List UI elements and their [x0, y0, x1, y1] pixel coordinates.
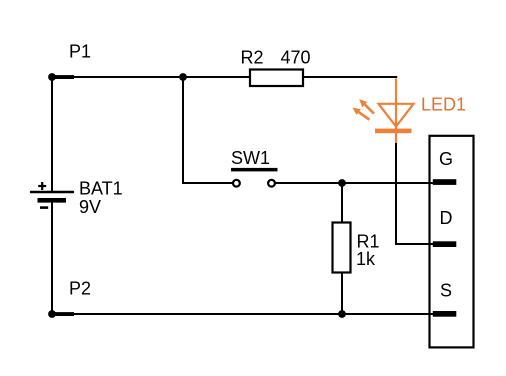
LED anode lead — [395, 78, 397, 128]
resistor R1 — [333, 223, 351, 273]
switch right contact — [268, 180, 275, 187]
svg-text:1k: 1k — [356, 249, 376, 269]
svg-text:P1: P1 — [69, 42, 91, 62]
node junction P2 — [48, 310, 56, 318]
wire bottom rail P2 to S pin — [52, 313, 436, 315]
pin S bar — [433, 311, 457, 317]
wire R2 right to corner — [303, 76, 397, 78]
svg-text:470: 470 — [281, 48, 311, 68]
wire R1 top lead — [341, 183, 343, 223]
pin P2 — [51, 312, 74, 316]
wire P1 top rail left — [52, 76, 250, 78]
switch SW1 — [231, 168, 278, 187]
connector box — [430, 136, 474, 348]
node junction switch rail / R1 — [338, 179, 346, 187]
wire LED cathode down — [395, 142, 397, 245]
svg-text:BAT1: BAT1 — [79, 179, 123, 199]
svg-text:9V: 9V — [79, 197, 101, 217]
battery BAT1 — [30, 182, 74, 208]
battery bottom plate (-) — [38, 198, 67, 203]
wire battery bottom lead — [51, 200, 53, 315]
LED cathode bar — [375, 129, 412, 134]
wire switch left lead — [182, 182, 233, 184]
LED cathode lead — [395, 128, 397, 143]
svg-text:P2: P2 — [69, 279, 91, 299]
wire battery top lead — [51, 76, 53, 192]
node junction top rail / switch branch — [179, 73, 187, 81]
switch left contact — [233, 180, 240, 187]
wire R1 bottom lead — [341, 272, 343, 314]
LED light arrow 1 — [359, 99, 374, 113]
pin G bar — [433, 179, 457, 185]
resistor R2 — [250, 70, 303, 87]
svg-text:SW1: SW1 — [231, 148, 270, 168]
node junction P1 — [48, 73, 56, 81]
pin P1 — [51, 75, 74, 79]
svg-text:G: G — [439, 149, 453, 169]
wire to D pin — [396, 243, 436, 245]
svg-text:S: S — [440, 281, 452, 301]
wire switch right to G pin — [276, 182, 437, 184]
battery minus sign — [40, 206, 48, 209]
LED triangle — [379, 104, 414, 127]
LED D1 symbol — [379, 78, 414, 143]
svg-text:R2: R2 — [241, 48, 264, 68]
LED light arrow 2 — [352, 108, 369, 120]
pin D bar — [433, 241, 457, 247]
battery plus sign — [38, 185, 46, 187]
switch actuator bar — [231, 168, 278, 172]
node junction bottom rail / R1 — [338, 310, 346, 318]
wire node A down to switch — [182, 77, 184, 184]
svg-text:D: D — [440, 208, 453, 228]
svg-text:LED1: LED1 — [421, 95, 466, 115]
battery top plate (+) — [30, 191, 74, 193]
